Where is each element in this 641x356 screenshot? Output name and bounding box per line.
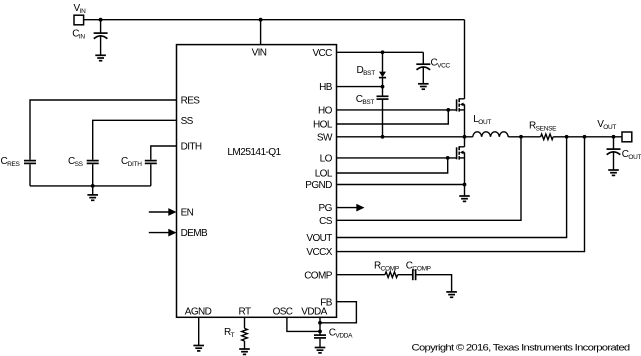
wire LS drain from SW <box>464 137 466 147</box>
wire VDDA <box>319 317 321 335</box>
node SW/CBST <box>381 135 385 139</box>
terminal VOUT (output port square) <box>622 132 632 142</box>
svg-text:RT: RT <box>224 327 235 339</box>
wire COMP <box>337 274 386 276</box>
IC U1 LM25141-Q1 body <box>177 45 337 318</box>
input arrow EN <box>149 208 177 216</box>
svg-text:LOL: LOL <box>315 169 333 180</box>
ground (COMP network) <box>446 292 457 297</box>
node VIN drop junction <box>259 18 263 22</box>
wire VIN pin drop <box>260 20 262 45</box>
svg-text:VOUT: VOUT <box>306 233 332 244</box>
wire HO (gate drive) <box>337 109 457 111</box>
wire VOUT sense <box>337 137 567 238</box>
wire HOL <box>337 110 449 124</box>
svg-text:LM25141-Q1: LM25141-Q1 <box>227 147 281 158</box>
wire CCOMP to ground <box>416 275 452 292</box>
wire CS <box>337 137 522 221</box>
wire RT <box>244 317 246 328</box>
svg-text:PGND: PGND <box>305 180 332 191</box>
ground (RT) <box>239 349 250 354</box>
resistor RT <box>242 328 248 341</box>
transistor Q1 high-side NFET <box>457 98 465 137</box>
svg-text:DBST: DBST <box>357 65 376 77</box>
node caps rail junction <box>91 184 95 188</box>
node CIN tap <box>99 18 103 22</box>
svg-text:VIN: VIN <box>74 3 87 15</box>
svg-text:DEMB: DEMB <box>181 228 208 239</box>
svg-text:CVDDA: CVDDA <box>329 328 353 340</box>
svg-text:SW: SW <box>317 132 333 143</box>
node SW/FET <box>463 135 467 139</box>
wire RCOMP to CCOMP <box>398 274 413 276</box>
wire CVDDA to ground <box>319 339 321 348</box>
svg-text:CDITH: CDITH <box>121 156 142 168</box>
svg-text:VCC: VCC <box>312 48 332 59</box>
wire CSS to rail <box>92 164 94 186</box>
transistor Q2 low-side NFET <box>457 146 465 184</box>
wire SS <box>93 120 177 159</box>
svg-text:CCOMP: CCOMP <box>406 260 431 272</box>
wire VOUT rail <box>553 136 622 138</box>
wire DITH <box>151 146 177 160</box>
node FB/VDDA junction <box>318 321 322 325</box>
wire VIN top rail <box>84 19 465 21</box>
input arrow DEMB <box>149 229 177 237</box>
inductor LOUT <box>473 132 508 137</box>
wire LO (gate drive) <box>337 157 457 159</box>
ground (power ground) <box>459 196 470 201</box>
node LO/LOL junction <box>446 156 450 160</box>
svg-text:RES: RES <box>181 96 201 107</box>
wire RT to ground <box>244 341 246 349</box>
svg-text:CRES: CRES <box>1 156 21 168</box>
capacitor CBST <box>377 87 389 137</box>
svg-text:COUT: COUT <box>622 149 641 161</box>
svg-text:VCCX: VCCX <box>306 247 332 258</box>
svg-text:VOUT: VOUT <box>597 119 616 131</box>
svg-text:CS: CS <box>319 216 333 227</box>
resistor RSENSE <box>541 134 554 140</box>
node COUT tap <box>612 135 616 139</box>
wire PGND to ground <box>464 185 466 197</box>
wire VCCX <box>337 137 585 252</box>
wire AGND <box>198 317 200 345</box>
terminal VIN (input port square) <box>74 15 84 25</box>
node VOUT tap <box>565 135 569 139</box>
capacitor CSS <box>87 161 99 164</box>
node VCC/DBST junction <box>381 50 385 54</box>
resistor RCOMP <box>385 272 398 278</box>
svg-text:LO: LO <box>320 153 333 164</box>
node HO/HOL junction <box>446 108 450 112</box>
svg-text:EN: EN <box>181 208 194 219</box>
svg-text:Copyright © 2016, Texas Instru: Copyright © 2016, Texas Instruments Inco… <box>412 343 630 354</box>
wire HB <box>337 86 383 88</box>
wire LOL <box>337 158 448 173</box>
wire RES <box>30 100 177 160</box>
ground (CVDDA) <box>315 348 326 353</box>
svg-text:OSC: OSC <box>273 307 293 318</box>
node VCCX tap <box>583 135 587 139</box>
node HB/CBST junction <box>381 85 385 89</box>
svg-text:HO: HO <box>318 106 333 117</box>
svg-text:HOL: HOL <box>313 120 333 131</box>
wire rail to ground <box>92 186 94 195</box>
capacitor CVCC <box>416 52 430 84</box>
svg-text:LOUT: LOUT <box>473 114 491 126</box>
output arrow PG <box>337 204 365 212</box>
capacitor COUT <box>607 137 621 170</box>
capacitor CCOMP <box>413 269 416 280</box>
svg-text:CSS: CSS <box>68 156 84 168</box>
svg-text:RSENSE: RSENSE <box>529 121 557 133</box>
ground (AGND) <box>193 346 204 351</box>
capacitor CRES <box>24 161 36 164</box>
wire VCC <box>337 51 424 53</box>
svg-text:VIN: VIN <box>252 47 267 58</box>
ground (under COUT) <box>608 170 619 175</box>
svg-text:SS: SS <box>181 116 194 127</box>
capacitor CVDDA <box>314 335 326 338</box>
node OSC/VDDA junction <box>318 330 322 334</box>
svg-text:VDDA: VDDA <box>301 307 327 318</box>
ground (caps rail) <box>87 195 98 200</box>
wire CDITH to rail <box>150 164 152 186</box>
ground (under CIN) <box>95 55 106 60</box>
wire OSC <box>287 317 320 331</box>
svg-text:CIN: CIN <box>72 29 85 41</box>
svg-text:RCOMP: RCOMP <box>374 260 399 272</box>
wire PGND <box>337 184 465 186</box>
svg-text:HB: HB <box>319 82 333 93</box>
svg-text:AGND: AGND <box>185 307 212 318</box>
node CS tap <box>519 135 523 139</box>
wire SW rail (left part) <box>337 136 473 138</box>
ground (under CVCC) <box>418 84 429 89</box>
node PGND/FET source <box>463 183 467 187</box>
svg-text:CVCC: CVCC <box>431 58 451 70</box>
wire caps common rail <box>30 185 151 187</box>
svg-text:COMP: COMP <box>304 270 333 281</box>
wire CRES to rail <box>29 164 31 186</box>
capacitor CDITH <box>145 161 157 164</box>
wire HS drain from VIN rail <box>464 20 466 99</box>
svg-text:PG: PG <box>319 203 333 214</box>
capacitor CIN <box>94 20 108 56</box>
svg-text:CBST: CBST <box>356 94 375 106</box>
svg-text:RT: RT <box>239 307 251 318</box>
diode DBST <box>379 52 386 86</box>
wire FB loop <box>320 302 356 323</box>
wire SW rail (right of inductor) <box>508 136 540 138</box>
svg-text:DITH: DITH <box>181 142 202 153</box>
